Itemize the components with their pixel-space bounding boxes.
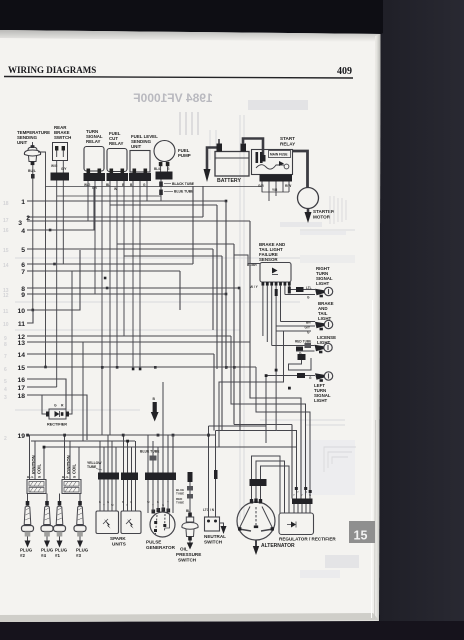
rear brake switch bbox=[51, 125, 71, 173]
starter motor bbox=[298, 188, 319, 209]
wires into bar A bbox=[99, 441, 101, 473]
wire: numbered line 11 bbox=[27, 310, 33, 323]
svg-text:TUBE: TUBE bbox=[176, 492, 184, 496]
connector bar C bbox=[145, 473, 176, 481]
turn signal relay bbox=[84, 129, 104, 173]
svg-text:15: 15 bbox=[3, 248, 9, 254]
svg-text:Y: Y bbox=[293, 493, 295, 497]
svg-text:10: 10 bbox=[17, 308, 25, 315]
alternator wires to bar E bbox=[251, 486, 253, 503]
svg-text:RELAY: RELAY bbox=[109, 141, 124, 146]
license connector black box bbox=[296, 347, 303, 351]
svg-text:1: 1 bbox=[21, 199, 25, 206]
faint vertical bundle right of starter bbox=[324, 196, 356, 472]
svg-text:R/W: R/W bbox=[285, 184, 291, 188]
svg-text:19: 19 bbox=[17, 433, 25, 440]
wire temp body tap bbox=[38, 152, 46, 367]
svg-text:10: 10 bbox=[3, 322, 9, 328]
wires below fuel level sending unit bbox=[132, 181, 134, 369]
wire harness horizontal y424 bbox=[234, 424, 292, 426]
svg-text:START: START bbox=[280, 136, 295, 141]
svg-text:#4: #4 bbox=[41, 553, 46, 558]
connector D oil pressure bbox=[188, 472, 193, 482]
wire vertical x217 bbox=[216, 205, 218, 369]
wire from failure sensor input bbox=[234, 255, 254, 264]
wire vertical x83 bbox=[82, 342, 84, 441]
svg-text:G: G bbox=[162, 503, 164, 507]
wire: numbered line 2 bbox=[27, 216, 203, 218]
page tab 15 bbox=[349, 521, 375, 543]
coil feed wires bbox=[29, 435, 31, 480]
svg-text:409: 409 bbox=[337, 66, 352, 77]
svg-text:UNIT: UNIT bbox=[131, 144, 142, 149]
svg-text:RELAY: RELAY bbox=[280, 142, 295, 147]
start relay to starter motor thick wire bbox=[293, 151, 308, 188]
svg-text:BLACK TUBE: BLACK TUBE bbox=[172, 182, 195, 186]
neutral switch wires up bbox=[208, 426, 210, 517]
svg-text:Y: Y bbox=[126, 503, 128, 507]
svg-text:MOTOR: MOTOR bbox=[313, 215, 331, 220]
battery positive thick wire to start relay bbox=[243, 139, 263, 158]
svg-text:2: 2 bbox=[4, 436, 7, 442]
svg-text:PLUG: PLUG bbox=[20, 548, 33, 553]
svg-text:BU/L: BU/L bbox=[28, 169, 36, 173]
svg-text:12: 12 bbox=[3, 293, 9, 299]
fuel pump tube connectors bbox=[160, 180, 162, 202]
svg-text:W: W bbox=[147, 500, 150, 504]
svg-text:WIRING DIAGRAMS: WIRING DIAGRAMS bbox=[8, 65, 96, 75]
alternator L-routes to regulator bbox=[252, 456, 281, 513]
svg-text:7: 7 bbox=[21, 269, 25, 276]
wires bar C to pulse generator bbox=[147, 480, 149, 513]
wire vertical from line 5 bbox=[212, 249, 214, 330]
svg-text:G/Y: G/Y bbox=[305, 326, 311, 330]
wire vertical from line 8 bbox=[239, 288, 241, 431]
svg-text:7: 7 bbox=[4, 354, 7, 360]
svg-text:PLUG: PLUG bbox=[41, 548, 54, 553]
svg-text:B: B bbox=[122, 500, 124, 504]
spark plug #3 bbox=[74, 494, 89, 559]
svg-text:G/R: G/R bbox=[258, 184, 264, 188]
neutral switch bbox=[203, 508, 226, 545]
svg-text:6: 6 bbox=[21, 262, 25, 269]
svg-text:Y: Y bbox=[103, 503, 105, 507]
start relay connector bar bbox=[260, 175, 293, 182]
alternator ground bbox=[255, 540, 257, 546]
connector bar F bbox=[292, 499, 313, 505]
connector bar E bbox=[250, 479, 267, 486]
svg-text:UNIT: UNIT bbox=[17, 140, 28, 145]
svg-text:BN: BN bbox=[306, 321, 311, 325]
ignition coil 2 bbox=[62, 455, 81, 493]
svg-text:SWITCH: SWITCH bbox=[178, 558, 197, 563]
wire vertical x222 bbox=[221, 256, 223, 431]
svg-text:STARTER: STARTER bbox=[313, 209, 335, 214]
svg-text:NEUTRAL: NEUTRAL bbox=[204, 534, 226, 539]
svg-text:RED TUBE: RED TUBE bbox=[295, 340, 311, 344]
connector on W/Y wire bbox=[275, 289, 278, 296]
start relay bbox=[252, 136, 296, 175]
svg-text:3: 3 bbox=[4, 395, 7, 401]
pulse generator bbox=[146, 508, 176, 551]
svg-text:SENSOR: SENSOR bbox=[259, 257, 278, 262]
svg-text:RELAY: RELAY bbox=[86, 139, 101, 144]
wires to right turn bulb bbox=[289, 289, 315, 291]
battery ground thick wire bbox=[207, 148, 217, 170]
wire vertical x234 bbox=[233, 244, 235, 425]
svg-text:GENERATOR: GENERATOR bbox=[146, 545, 176, 550]
svg-text:LIGHT: LIGHT bbox=[317, 340, 330, 345]
faint show-through texture lines bbox=[15, 112, 355, 520]
svg-text:LIGHT: LIGHT bbox=[314, 398, 327, 403]
svg-text:4: 4 bbox=[21, 228, 25, 235]
svg-text:LIGHT: LIGHT bbox=[316, 281, 329, 286]
svg-text:BL: BL bbox=[186, 509, 190, 513]
svg-text:REGULATOR / RECTIFIER: REGULATOR / RECTIFIER bbox=[279, 537, 336, 542]
wire: numbered line 10 bbox=[27, 250, 80, 310]
svg-text:G/Y: G/Y bbox=[61, 167, 67, 171]
wire G bus down bbox=[275, 370, 277, 430]
svg-text:MAIN FUSE: MAIN FUSE bbox=[270, 153, 288, 157]
svg-text:W: W bbox=[114, 187, 117, 191]
wire vertical to line 6 bbox=[192, 186, 194, 264]
faint smudge bottom right bbox=[325, 555, 359, 568]
svg-text:PLUG: PLUG bbox=[76, 548, 89, 553]
svg-text:14: 14 bbox=[3, 263, 9, 269]
spark plug #4 bbox=[41, 494, 54, 559]
svg-text:B: B bbox=[157, 500, 159, 504]
ground arrow mid (B) bbox=[151, 397, 159, 422]
wire: numbered line 17 bbox=[27, 386, 57, 388]
svg-text:TUBE: TUBE bbox=[87, 465, 97, 469]
regulator / rectifier bbox=[279, 513, 336, 542]
wire harness horizontal y244 bbox=[117, 243, 234, 245]
fuel cut relay connector bar bbox=[107, 173, 129, 181]
svg-text:BATTERY: BATTERY bbox=[217, 178, 241, 184]
wire: numbered line 8 bbox=[27, 287, 240, 289]
spark plug #2 bbox=[20, 494, 34, 559]
wire temp unit down bbox=[32, 165, 34, 310]
svg-text:#2: #2 bbox=[20, 553, 25, 558]
svg-text:BLUE TUBE: BLUE TUBE bbox=[174, 190, 194, 194]
wire: numbered line 5 bbox=[27, 248, 213, 250]
svg-text:#1: #1 bbox=[55, 553, 60, 558]
dark component box bbox=[298, 354, 306, 360]
wire: numbered line 6 bbox=[27, 263, 193, 265]
svg-text:15: 15 bbox=[354, 529, 368, 543]
wire vertical from line 1 bbox=[225, 201, 227, 369]
spark plug #1 bbox=[54, 494, 68, 559]
wires to license bulb + tube symbol bbox=[272, 345, 315, 347]
brake and tail light failure sensor bbox=[247, 242, 291, 289]
svg-text:PULSE: PULSE bbox=[146, 540, 161, 545]
neutral switch ground bbox=[220, 523, 224, 526]
fuel pump connector bar bbox=[156, 172, 173, 180]
wire: numbered line 15 bbox=[27, 366, 256, 368]
spark unit 1 bbox=[96, 511, 119, 534]
wires below fuel cut relay bbox=[109, 181, 111, 435]
svg-text:8: 8 bbox=[4, 342, 7, 348]
license light bulb bbox=[315, 343, 333, 353]
svg-text:BL/L: BL/L bbox=[62, 475, 69, 479]
battery bbox=[215, 139, 249, 184]
wires to brake tail bulb bbox=[281, 321, 316, 323]
svg-text:9: 9 bbox=[21, 292, 25, 299]
wire: numbered line 9 bbox=[27, 293, 226, 295]
svg-text:4: 4 bbox=[4, 387, 7, 393]
header rule bbox=[4, 77, 353, 79]
svg-text:2: 2 bbox=[26, 215, 30, 222]
ignition coil 1 bbox=[27, 455, 46, 493]
wire vertical from line 7 bbox=[179, 271, 181, 310]
svg-text:W: W bbox=[73, 475, 76, 479]
temp unit bullet connector bbox=[31, 174, 35, 179]
svg-text:W: W bbox=[38, 475, 41, 479]
wire harness horizontal y205 bbox=[110, 204, 217, 206]
connector bar A bbox=[98, 473, 119, 480]
wires bar B to spark unit 2 bbox=[123, 480, 125, 511]
svg-text:18: 18 bbox=[3, 201, 9, 207]
page sheet edges bbox=[372, 300, 373, 618]
svg-text:1984 VF1000F: 1984 VF1000F bbox=[133, 91, 212, 105]
wire: numbered line 19 bbox=[27, 434, 216, 436]
svg-text:UNITS: UNITS bbox=[112, 542, 126, 547]
svg-text:PRESSURE: PRESSURE bbox=[176, 552, 201, 557]
svg-text:5: 5 bbox=[4, 379, 7, 385]
wire branch line 19 to pulse connector bbox=[172, 435, 174, 473]
wire: numbered line 16 bbox=[27, 379, 66, 409]
wires bar A to spark unit 1 bbox=[99, 480, 101, 512]
wires below turn signal relay bbox=[87, 181, 89, 221]
svg-text:SPARK: SPARK bbox=[110, 536, 126, 541]
connector bar B bbox=[121, 473, 138, 481]
left turn signal light bulb bbox=[315, 372, 333, 382]
wire: numbered line 12 bbox=[27, 335, 231, 337]
white page bbox=[0, 30, 381, 622]
svg-text:18: 18 bbox=[17, 393, 25, 400]
svg-text:15: 15 bbox=[17, 365, 25, 372]
wires bar F to regulator bbox=[293, 504, 295, 513]
right turn signal light bulb bbox=[315, 287, 333, 297]
svg-text:W / Y: W / Y bbox=[250, 285, 259, 289]
spark unit 2 bbox=[121, 511, 141, 534]
svg-text:Y/R: Y/R bbox=[272, 188, 278, 192]
svg-text:PUMP: PUMP bbox=[178, 153, 191, 158]
starter motor ground bbox=[307, 209, 310, 213]
fuel level sending unit connector bar bbox=[129, 173, 151, 181]
wires to left turn bulb bbox=[266, 375, 315, 377]
svg-text:BL/L: BL/L bbox=[154, 167, 161, 171]
failure sensor pin wires down bbox=[262, 286, 264, 336]
wire: numbered line 1 bbox=[27, 200, 226, 202]
svg-text:Y: Y bbox=[167, 500, 169, 504]
svg-text:SWITCH: SWITCH bbox=[54, 135, 71, 140]
wire vertical to line 2 bbox=[202, 186, 204, 217]
svg-text:COIL: COIL bbox=[37, 464, 42, 474]
fuel pump bbox=[154, 141, 191, 172]
wire: numbered line 4 bbox=[27, 186, 94, 230]
turn signal relay connector bar bbox=[84, 173, 106, 181]
svg-text:11: 11 bbox=[3, 309, 9, 315]
svg-text:5: 5 bbox=[21, 247, 25, 254]
svg-text:TUBE: TUBE bbox=[176, 501, 184, 505]
svg-text:G: G bbox=[107, 500, 109, 504]
rectifier bbox=[46, 404, 69, 427]
harness horizontals below battery bbox=[46, 186, 263, 188]
G wire staircase from brake light bbox=[219, 331, 284, 447]
svg-text:SWITCH: SWITCH bbox=[204, 540, 223, 545]
staircase wires from mid field to bar F bbox=[231, 336, 306, 499]
alternator bbox=[237, 502, 295, 549]
fuel level sending unit bbox=[130, 134, 158, 173]
wire: numbered line 13 bbox=[27, 341, 250, 343]
svg-text:B: B bbox=[99, 500, 101, 504]
wire harness horizontal y256 bbox=[124, 255, 222, 257]
svg-text:14: 14 bbox=[17, 352, 25, 359]
svg-text:17: 17 bbox=[3, 218, 9, 224]
wire: numbered line 3 bbox=[27, 220, 250, 222]
wire: numbered line 18 bbox=[27, 395, 87, 440]
svg-text:PLUG: PLUG bbox=[55, 548, 68, 553]
oil pressure switch bbox=[176, 482, 201, 563]
svg-text:OIL: OIL bbox=[180, 547, 188, 552]
rear brake switch connector bar bbox=[51, 173, 70, 181]
svg-text:LTL: LTL bbox=[306, 286, 312, 290]
harness horizontals above coils bbox=[31, 440, 135, 442]
svg-text:W/G: W/G bbox=[51, 164, 58, 168]
svg-text:3: 3 bbox=[18, 220, 22, 227]
svg-text:Y: Y bbox=[152, 503, 154, 507]
svg-text:11: 11 bbox=[18, 321, 25, 328]
wires below start relay bbox=[261, 182, 263, 193]
svg-text:16: 16 bbox=[3, 228, 9, 234]
wire vertical x292 to regulator connector bbox=[291, 425, 293, 499]
svg-text:ALTERNATOR: ALTERNATOR bbox=[261, 543, 295, 549]
svg-text:G: G bbox=[130, 500, 132, 504]
svg-text:BLUE TUBE: BLUE TUBE bbox=[140, 450, 160, 454]
failure sensor pins bbox=[262, 282, 291, 286]
svg-text:BL/L: BL/L bbox=[27, 475, 34, 479]
brake and tail light bulb bbox=[315, 320, 333, 330]
wire vertical from line 14 bbox=[213, 354, 215, 431]
faint ghost marks left margin bbox=[3, 201, 9, 442]
svg-text:W: W bbox=[111, 503, 114, 507]
wires into bar B bbox=[123, 435, 125, 473]
svg-text:G: G bbox=[54, 404, 57, 408]
svg-text:RECTIFIER: RECTIFIER bbox=[47, 423, 67, 427]
svg-text:17: 17 bbox=[17, 385, 25, 392]
svg-text:COIL: COIL bbox=[72, 464, 77, 474]
svg-text:Y: Y bbox=[297, 490, 299, 494]
fuel cut relay bbox=[107, 131, 127, 173]
svg-text:16: 16 bbox=[17, 377, 25, 384]
numbers column bbox=[17, 199, 30, 440]
wire staircase line 3 to regulator bbox=[250, 221, 301, 499]
faint show-through smudges bbox=[248, 100, 355, 495]
wire: numbered line 14 bbox=[27, 353, 214, 355]
svg-text:13: 13 bbox=[17, 340, 25, 347]
wires into bar C bbox=[147, 435, 149, 473]
rectifier side wires bbox=[42, 395, 46, 414]
wire loop to left turn bbox=[289, 358, 312, 370]
wires below rear brake switch bbox=[56, 181, 58, 388]
wire: numbered line 7 bbox=[27, 270, 180, 272]
svg-text:6: 6 bbox=[4, 367, 7, 373]
temperature sending unit TEMP bbox=[17, 130, 50, 165]
battery ground arrow bbox=[204, 169, 211, 182]
svg-text:#3: #3 bbox=[76, 553, 81, 558]
